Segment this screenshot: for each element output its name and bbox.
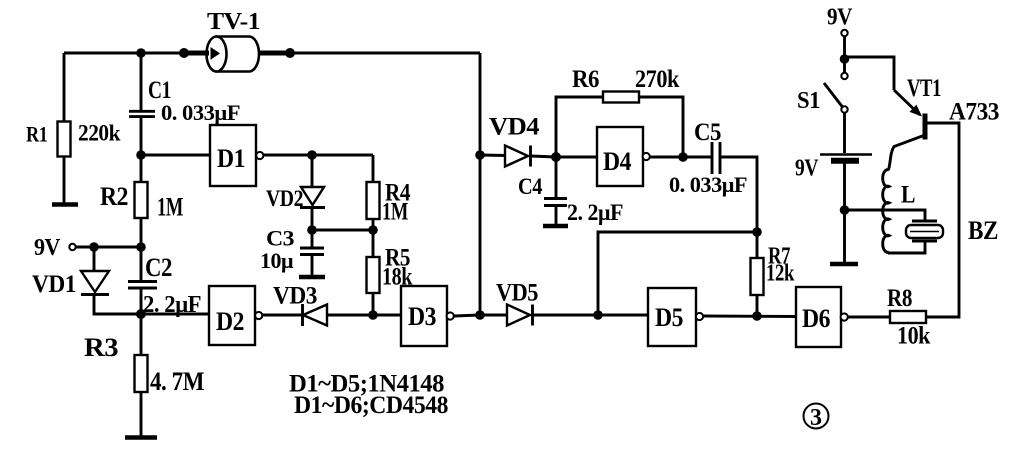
wire cross link from R7 node to D5 input node [598, 232, 757, 315]
svg-text:C4: C4 [518, 174, 543, 199]
wire VD1 cathode down and right to C2 bottom node [94, 296, 141, 314]
diode VD5 [507, 305, 533, 326]
svg-text:D2: D2 [216, 307, 244, 336]
svg-text:S1: S1 [797, 88, 820, 114]
ground below C3 [299, 275, 325, 279]
capacitor C5 [712, 142, 720, 174]
wire node to D1 input [141, 154, 210, 157]
wire bus node to VD4 anode [480, 154, 506, 157]
svg-text:9V: 9V [795, 156, 819, 182]
svg-text:A733: A733 [949, 99, 999, 126]
node TV-1 secondary lead [285, 48, 295, 58]
node C5 / R7 / cross link [752, 227, 762, 237]
wire R4 bottom lead [372, 219, 375, 230]
wire R5 bottom lead to D2 output row [372, 293, 375, 315]
monostable D3 [401, 286, 454, 346]
capacitor C1 [129, 111, 155, 116]
wire D5 output to D6 input [703, 315, 796, 318]
wire C1 branch from top bus to C1 [140, 53, 143, 111]
wire R3 from node down [140, 314, 143, 437]
figure number 3 [804, 404, 829, 432]
resistor R5 [367, 257, 380, 293]
wire R4 top lead [372, 155, 375, 182]
wire top bus y=53 from R1 top to right corner [64, 52, 480, 55]
wire C3 bottom to ground [311, 255, 314, 277]
svg-text:270k: 270k [635, 66, 680, 93]
buzzer BZ [906, 221, 943, 241]
wire C1 bottom to node at D1 input row [140, 117, 143, 155]
monostable D6 [796, 287, 848, 347]
diode VD2 [300, 187, 325, 208]
node C2 / VD1 / D2 input [136, 309, 146, 319]
9V terminal circle left [69, 244, 75, 250]
svg-text:R2: R2 [100, 182, 128, 211]
switch S1 [824, 73, 848, 113]
wire bus node to VD5 anode [480, 314, 507, 317]
wire R7 top lead [756, 232, 759, 258]
resistor R6 [603, 92, 639, 103]
node 9V / R2 / C2 [136, 242, 146, 252]
wire VD5 cathode to D5 input [533, 314, 648, 317]
9V terminal circle top right [841, 30, 847, 36]
svg-text:2. 2μF: 2. 2μF [143, 292, 201, 318]
capacitor C2 [128, 282, 157, 289]
wire D4 output to C5 [650, 156, 711, 159]
wire D1 output to VD2/R4 nodes [263, 154, 373, 157]
svg-text:4. 7M: 4. 7M [150, 367, 204, 396]
svg-text:BZ: BZ [968, 216, 998, 245]
resistor R8 [890, 311, 926, 323]
wire D6 output to R8 [848, 316, 890, 319]
svg-text:D4: D4 [603, 147, 631, 176]
svg-text:VD3: VD3 [273, 283, 317, 310]
svg-text:0. 033μF: 0. 033μF [161, 100, 240, 125]
svg-text:2. 2μF: 2. 2μF [567, 200, 623, 225]
svg-text:10k: 10k [897, 323, 931, 350]
svg-text:VT1: VT1 [907, 75, 941, 102]
monostable D5 [648, 288, 703, 346]
diode VD3 [303, 304, 328, 326]
wire R6 feedback loop right side [639, 97, 683, 157]
transformer TV-1 [184, 37, 290, 72]
node R4 / R5 [368, 225, 378, 235]
transistor VT1 [894, 90, 925, 140]
node R5 / VD3 / D3 input [368, 310, 378, 320]
node VD5 / D5 input / cross link [593, 310, 603, 320]
wire vertical bus x=480 from top bus down to VD5 row [479, 53, 482, 315]
node D1 output / VD2 [307, 150, 317, 160]
diode VD1 [81, 271, 109, 295]
inductor L [883, 170, 889, 253]
node 9V / VD1 [89, 242, 99, 252]
wire node row between VD2 and R4 bottom [312, 229, 373, 232]
wire D3 output to vertical bus node [454, 315, 480, 316]
wire D2 output to VD3 [262, 314, 302, 317]
wire C5 right lead down to R7 top node [720, 157, 757, 232]
svg-text:R8: R8 [887, 285, 912, 312]
ground below battery [830, 262, 858, 266]
wire 9V left terminal rail [76, 246, 141, 249]
wire D4 input node to D4 [556, 156, 597, 159]
wire C4 bottom to ground [555, 206, 558, 226]
svg-text:9V: 9V [827, 5, 853, 31]
svg-text:R1: R1 [26, 122, 48, 147]
wire VD4 cathode to D4 input node [531, 156, 556, 157]
svg-text:10μ: 10μ [260, 248, 294, 273]
capacitor C4 [544, 199, 567, 206]
node 9V / emitter / S1 [840, 54, 850, 64]
svg-text:12k: 12k [766, 261, 795, 287]
wire C2 bottom lead to node [140, 289, 143, 314]
wire 9V top terminal down to emitter node [843, 36, 846, 57]
wire R2 from D1 input node down to 9V rail [140, 155, 143, 247]
wire VD2 anode lead [311, 155, 314, 187]
wire battery to lower node and ground [843, 163, 846, 263]
node battery / buzzer [840, 205, 850, 215]
wire node to D2 input [141, 313, 209, 316]
svg-text:R6: R6 [572, 66, 599, 93]
svg-text:3: 3 [810, 405, 822, 431]
wire emitter node down to switch S1 [843, 57, 846, 73]
wire C2 top lead [140, 247, 143, 281]
svg-text:D1: D1 [217, 144, 245, 173]
svg-text:D3: D3 [408, 302, 436, 331]
node top bus / C1 [136, 48, 146, 58]
svg-text:1M: 1M [382, 199, 408, 226]
svg-text:220k: 220k [78, 121, 121, 146]
monostable D1 [210, 125, 263, 186]
diode VD4 [505, 146, 531, 167]
monostable D2 [209, 286, 262, 345]
resistor R3 [135, 355, 148, 392]
svg-text:D1~D6;CD4548: D1~D6;CD4548 [294, 392, 448, 419]
wire VT1 collector down to coil L [889, 135, 926, 170]
node D5 output / R7 / D6 input [752, 311, 762, 321]
svg-text:C3: C3 [266, 226, 295, 251]
ground below R3 [125, 435, 157, 439]
wire R7 bottom lead [756, 295, 759, 316]
wire S1 lower contact to battery [843, 112, 846, 153]
capacitor C3 [300, 248, 324, 255]
svg-text:9V: 9V [34, 235, 61, 261]
svg-text:D5: D5 [655, 303, 683, 332]
resistor R4 [367, 182, 380, 219]
wire C4 top lead [555, 157, 558, 198]
node VD4 / C4 / R6 / D4 input [551, 152, 561, 162]
wire R1 branch from top bus down to R1 [63, 53, 66, 122]
wire C3 top lead [311, 230, 314, 247]
node D4 output / R6 / C5 [678, 152, 688, 162]
resistor R1 [58, 122, 71, 157]
node bus / VD4 [475, 150, 485, 160]
node bus / D3 output / VD5 [475, 310, 485, 320]
wire emitter node to VT1 emitter [845, 57, 895, 90]
wire VD2 cathode lead to C3 node [311, 209, 314, 230]
wire R6 feedback loop left side [556, 97, 603, 157]
svg-text:L: L [901, 182, 915, 209]
svg-text:TV-1: TV-1 [207, 9, 260, 35]
monostable D4 [597, 127, 650, 186]
svg-text:18k: 18k [382, 264, 412, 291]
resistor R7 [751, 258, 764, 295]
ground below C4 [543, 224, 568, 228]
svg-text:VD5: VD5 [496, 280, 538, 307]
node VD2 cathode / C3 [307, 225, 317, 235]
svg-text:D6: D6 [802, 304, 830, 333]
svg-text:VD4: VD4 [489, 114, 540, 141]
ground below R1 [52, 202, 78, 206]
wire R1 bottom to ground [63, 156, 66, 204]
node TV-1 primary lead [179, 48, 189, 58]
wire buzzer bottom to coil bottom [888, 241, 925, 253]
node C1 / R2 / D1 input [136, 150, 146, 160]
svg-text:1M: 1M [157, 193, 183, 222]
svg-text:VD1: VD1 [32, 271, 76, 298]
resistor R2 [135, 182, 148, 218]
wire VD1 branch down [93, 247, 96, 271]
battery 9V [820, 155, 872, 161]
wire R5 top lead [372, 230, 375, 257]
svg-text:C5: C5 [694, 119, 721, 146]
svg-text:R3: R3 [84, 333, 119, 362]
svg-text:VD2: VD2 [266, 186, 303, 211]
svg-text:0. 033μF: 0. 033μF [669, 172, 747, 197]
wire R8 to VT1 base riser [926, 123, 959, 317]
wire battery node to buzzer top [845, 210, 926, 221]
svg-text:C2: C2 [145, 253, 172, 282]
wire VD3 anode to node [327, 314, 401, 317]
